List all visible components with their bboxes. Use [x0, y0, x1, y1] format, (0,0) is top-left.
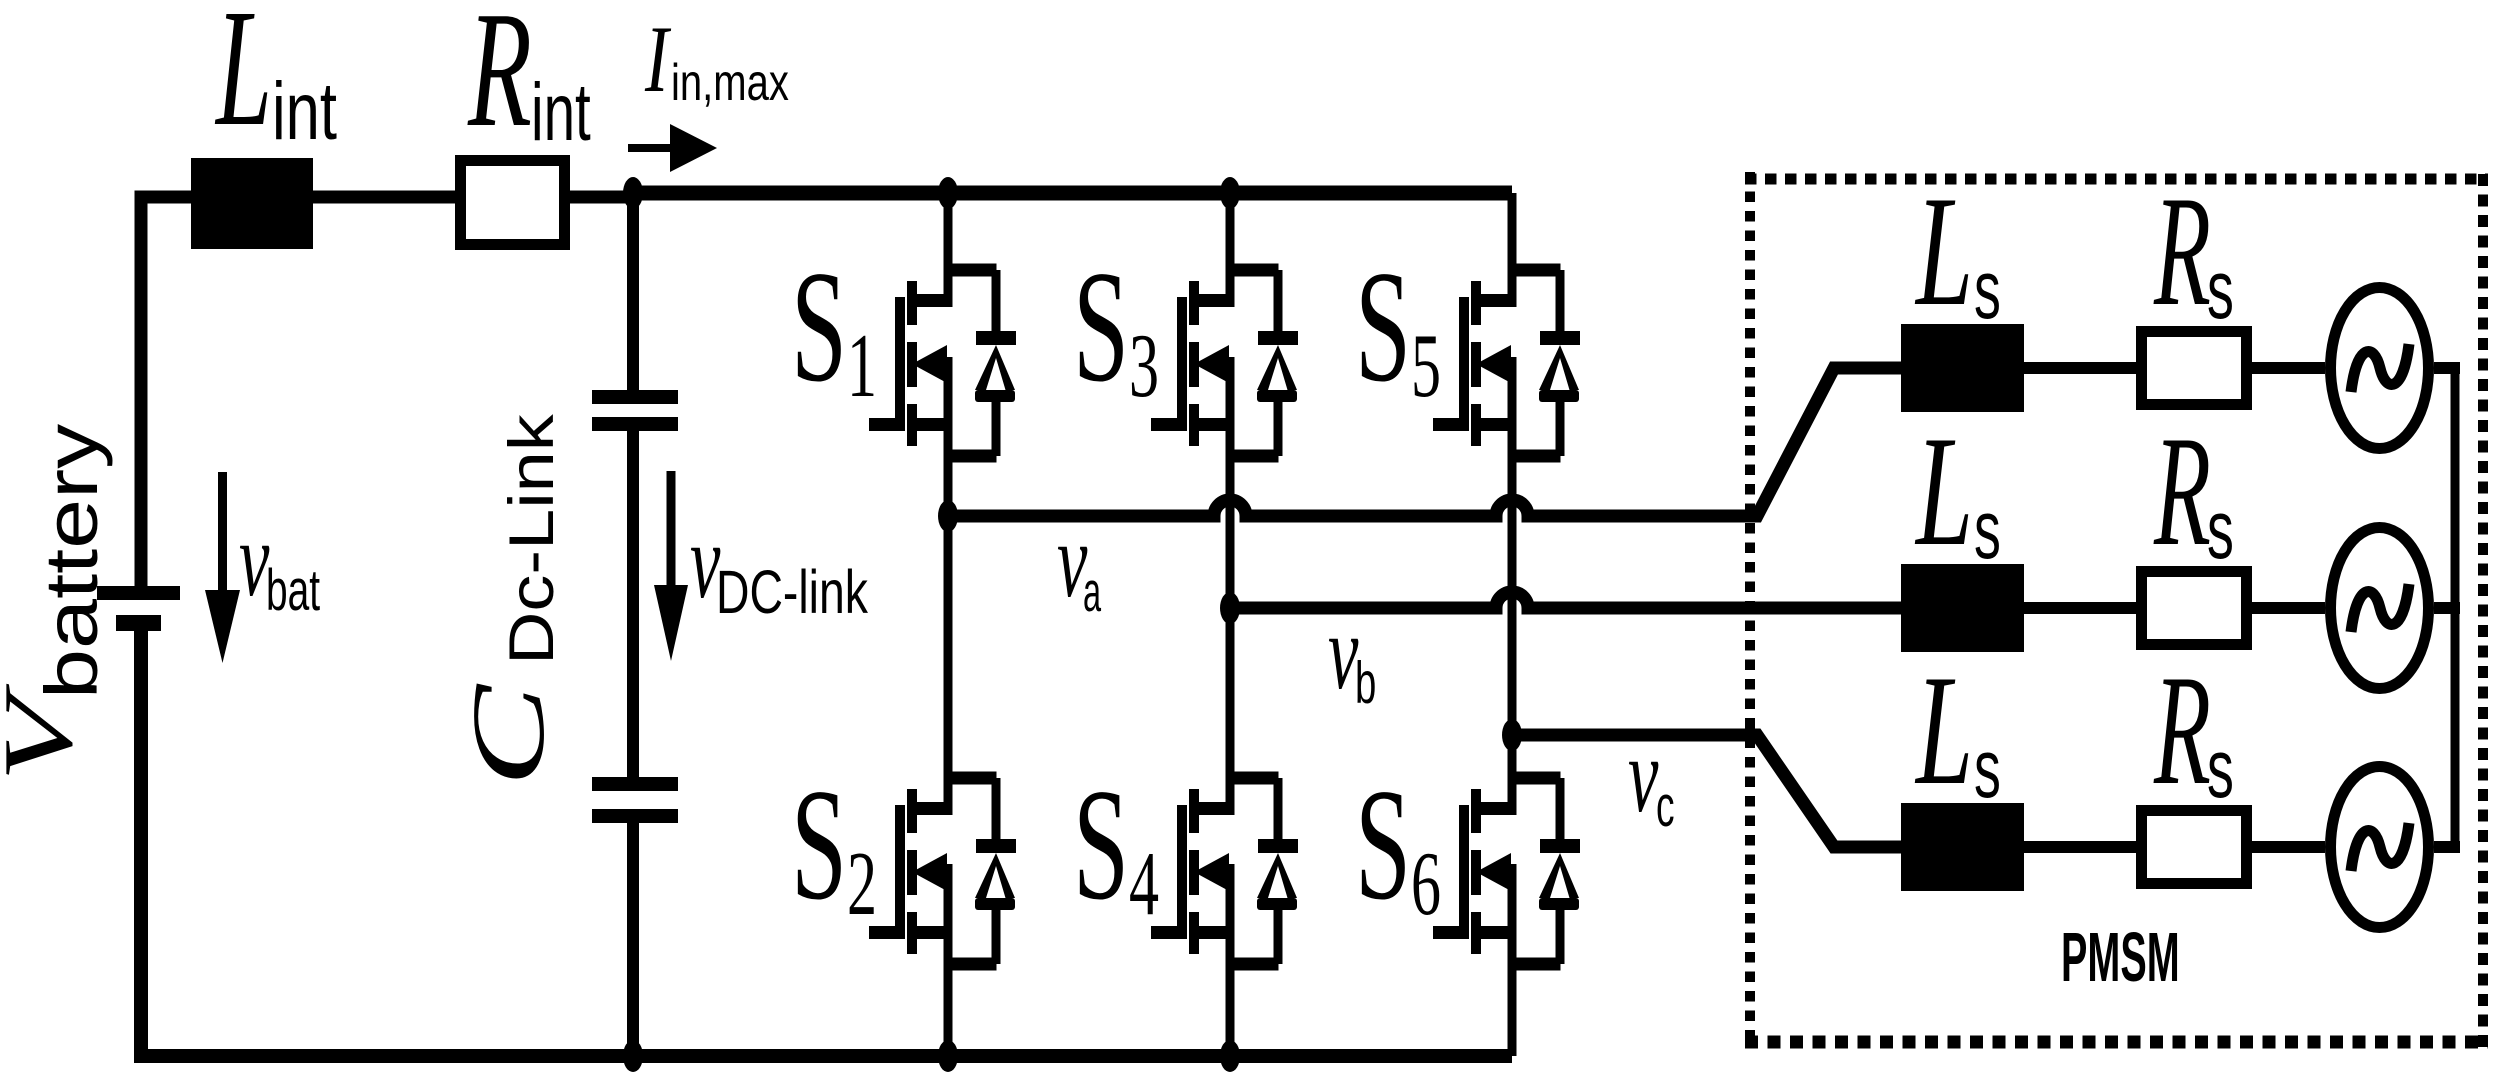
svg-text:int: int: [272, 65, 337, 157]
svg-text:in,max: in,max: [671, 53, 789, 111]
svg-text:S: S: [1073, 238, 1129, 415]
svg-text:b: b: [1355, 650, 1376, 716]
svg-text:v: v: [1328, 594, 1358, 712]
svg-text:int: int: [531, 66, 591, 158]
svg-text:Dc-Link: Dc-Link: [496, 414, 567, 665]
svg-text:6: 6: [1411, 833, 1441, 935]
svg-text:L: L: [215, 0, 273, 160]
svg-text:bat: bat: [266, 558, 320, 623]
svg-text:PMSM: PMSM: [2061, 919, 2180, 997]
svg-text:a: a: [1083, 559, 1101, 623]
svg-text:S: S: [1073, 756, 1129, 933]
svg-text:S: S: [791, 238, 847, 415]
svg-text:R: R: [467, 0, 532, 162]
svg-text:2: 2: [847, 833, 877, 935]
svg-text:v: v: [239, 501, 269, 619]
svg-text:v: v: [1628, 717, 1658, 835]
svg-text:battery: battery: [32, 424, 114, 699]
svg-text:1: 1: [847, 315, 877, 417]
svg-text:DC-link: DC-link: [716, 559, 869, 627]
svg-text:C: C: [451, 683, 566, 787]
svg-text:I: I: [644, 8, 672, 113]
svg-text:4: 4: [1129, 833, 1159, 935]
svg-text:c: c: [1656, 775, 1675, 839]
svg-text:S: S: [1355, 756, 1411, 933]
svg-text:5: 5: [1411, 315, 1441, 417]
svg-text:S: S: [791, 756, 847, 933]
svg-text:S: S: [1355, 238, 1411, 415]
svg-text:3: 3: [1129, 315, 1159, 417]
